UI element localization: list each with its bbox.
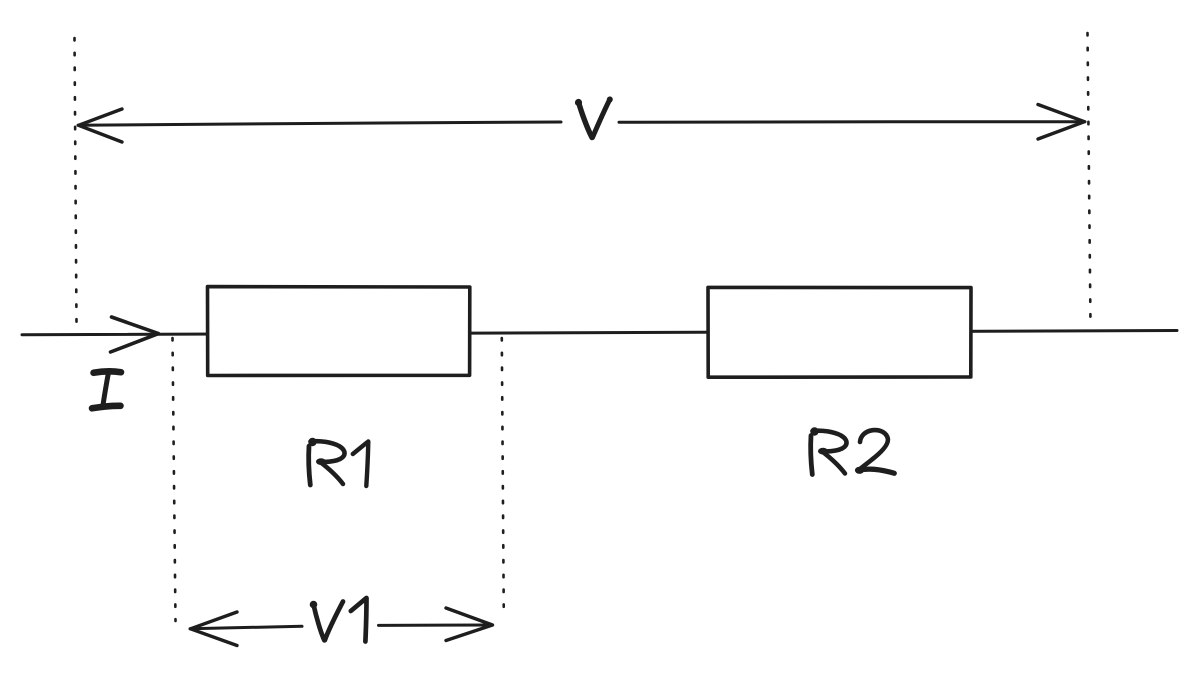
node D dotted guide (V1 right reference line): [502, 338, 504, 617]
label I: [92, 371, 121, 408]
voltage arrow V1 (double-headed dimension arrow under R1): [190, 608, 493, 646]
current arrow I (arrowhead on wire): [111, 317, 159, 352]
node A dotted guide (left terminal reference line): [75, 38, 77, 324]
resistor R2: [708, 287, 971, 377]
resistor R1: [208, 287, 470, 376]
label R2: [810, 427, 894, 474]
label R1: [308, 438, 368, 486]
wire (main conductor): [22, 331, 1177, 335]
label V1: [310, 598, 367, 642]
voltage arrow V (double-headed dimension arrow across both resistors): [78, 105, 1085, 143]
node C dotted guide (V1 left reference line): [173, 338, 176, 621]
label V: [575, 97, 613, 138]
node B dotted guide (right terminal reference line): [1088, 33, 1091, 324]
